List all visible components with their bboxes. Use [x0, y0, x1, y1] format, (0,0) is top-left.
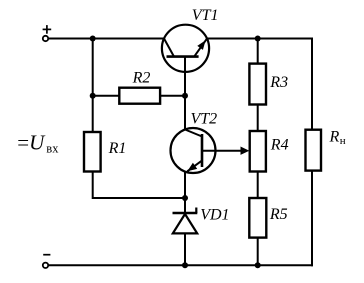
svg-text:R4: R4	[270, 137, 289, 154]
svg-text:R: R	[329, 129, 340, 146]
svg-text:VT2: VT2	[191, 110, 218, 127]
svg-text:R1: R1	[108, 140, 127, 157]
svg-text:вх: вх	[46, 142, 59, 156]
svg-text:R2: R2	[132, 70, 151, 87]
svg-text:R3: R3	[269, 74, 288, 91]
svg-text:=U: =U	[17, 130, 46, 154]
svg-text:R5: R5	[269, 206, 288, 223]
svg-text:н: н	[340, 135, 346, 147]
svg-text:VT1: VT1	[192, 7, 219, 24]
svg-text:VD1: VD1	[200, 207, 229, 224]
